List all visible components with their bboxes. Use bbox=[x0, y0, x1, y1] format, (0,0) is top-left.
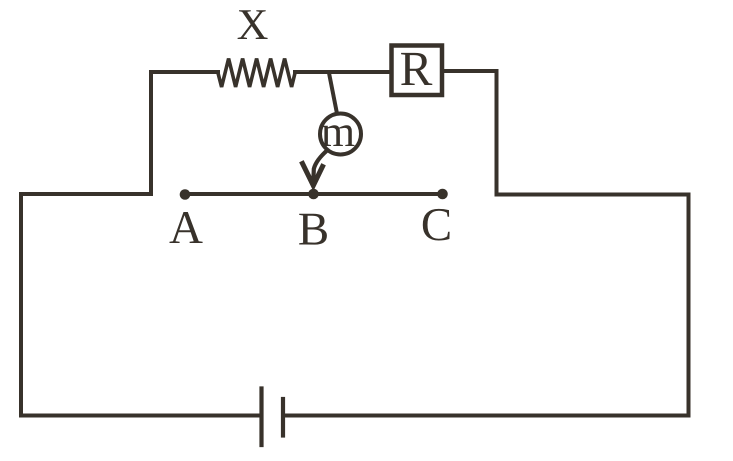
label B bbox=[299, 214, 327, 245]
bridge wire A-C bbox=[185, 192, 443, 196]
resistor X bbox=[218, 59, 295, 88]
wire top-left segment bbox=[151, 70, 218, 74]
node C bbox=[437, 189, 448, 200]
label A bbox=[170, 212, 203, 243]
wire bottom-left segment bbox=[21, 414, 262, 418]
wire left inner vertical bbox=[149, 72, 153, 194]
node A bbox=[180, 189, 191, 200]
wire right outer vertical bbox=[687, 195, 691, 416]
label C bbox=[423, 209, 450, 241]
wire top-right segment bbox=[444, 69, 497, 73]
label X bbox=[238, 10, 268, 39]
wire right horizontal bbox=[497, 193, 689, 197]
wire bottom-right segment bbox=[283, 414, 689, 418]
jockey arrow bbox=[303, 151, 328, 186]
wire top-middle segment bbox=[295, 70, 389, 74]
wire left outer vertical bbox=[19, 194, 23, 416]
battery cell bbox=[262, 389, 284, 446]
wire left horizontal bbox=[21, 192, 151, 196]
node B bbox=[308, 189, 319, 200]
galvanometer U1 bbox=[320, 114, 361, 155]
label R bbox=[401, 53, 432, 85]
resistor R box bbox=[392, 46, 443, 96]
label m bbox=[322, 125, 355, 146]
wire galvanometer lead bbox=[329, 73, 337, 111]
wire right inner vertical bbox=[495, 71, 499, 195]
